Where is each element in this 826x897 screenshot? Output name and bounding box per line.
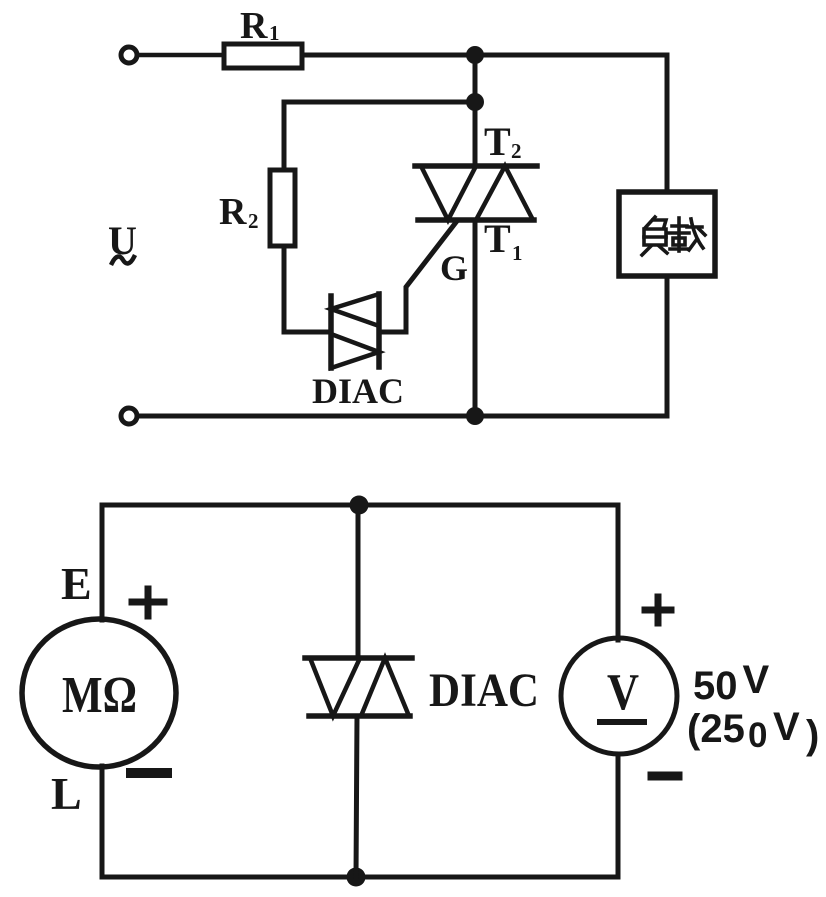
resistor R1 (224, 44, 302, 68)
svg-text:G: G (440, 248, 468, 288)
node junction top (466, 46, 484, 64)
svg-text:E: E (61, 558, 92, 609)
svg-text:50V: 50V (693, 658, 770, 708)
resistor R2 (270, 170, 295, 246)
wire (138, 53, 224, 58)
svg-text:T: T (484, 216, 511, 261)
svg-text:V: V (607, 664, 639, 721)
node junction bottom (466, 407, 484, 425)
svg-text:L: L (51, 768, 82, 819)
minus sign ohmmeter (131, 768, 167, 778)
wire triac T1 lead (473, 220, 478, 416)
triac left triangle (421, 166, 476, 220)
svg-text:1: 1 (512, 241, 523, 265)
svg-text:1: 1 (269, 21, 280, 45)
wire middle vertical upper (356, 505, 361, 658)
U tilde (112, 257, 134, 264)
plus sign ohmmeter (145, 589, 152, 616)
load label 负载 (642, 217, 705, 255)
load box wire bottom (665, 276, 670, 416)
diac D2 left triangle (310, 658, 360, 716)
terminal bottom-left (121, 408, 137, 424)
wire (302, 53, 667, 58)
wire (665, 55, 670, 192)
bottom circuit bottom wire (102, 875, 618, 880)
megohm meter circle (22, 619, 176, 767)
voltmeter V underline (600, 719, 644, 725)
load box (619, 192, 715, 276)
triac top bar (415, 163, 537, 169)
terminal top-left (121, 47, 137, 63)
diac D2 bottom bar (309, 713, 410, 719)
svg-text:T: T (484, 119, 511, 164)
diac D2 right triangle (361, 658, 409, 716)
svg-text:DIAC: DIAC (429, 664, 539, 717)
svg-text:MΩ: MΩ (62, 667, 137, 724)
diac D1 right bar (376, 294, 382, 367)
wire left vertical lower (100, 766, 105, 877)
diac D1 lower triangle (331, 334, 379, 368)
wire left vertical upper (100, 505, 105, 620)
wire branch to R2 (284, 102, 475, 170)
node bottom-circuit bottom (347, 868, 366, 887)
triac right triangle (476, 166, 533, 220)
diac D1 left bar (328, 296, 334, 368)
node branch (466, 93, 484, 111)
plus sign voltmeter (655, 597, 662, 623)
wire right vertical upper (616, 505, 621, 640)
wire triac T2 lead (473, 55, 478, 166)
svg-text:2: 2 (511, 139, 522, 163)
svg-text:DIAC: DIAC (312, 371, 404, 411)
minus sign voltmeter (652, 772, 678, 781)
svg-text:R: R (240, 5, 268, 47)
node bottom-circuit top (350, 496, 369, 515)
svg-text:2: 2 (248, 209, 259, 233)
voltmeter circle (561, 638, 677, 754)
wire right vertical lower (616, 755, 621, 877)
bottom circuit top wire (102, 503, 618, 508)
wire R2 to DIAC (284, 246, 331, 332)
diac D1 upper triangle (331, 294, 379, 326)
diac D2 top bar (305, 655, 412, 661)
wire gate lead (379, 221, 457, 332)
svg-text:U: U (108, 218, 137, 263)
svg-text:R: R (219, 191, 247, 233)
triac bottom bar (418, 217, 534, 223)
wire middle vertical lower (356, 716, 357, 877)
wire bottom (139, 414, 667, 419)
